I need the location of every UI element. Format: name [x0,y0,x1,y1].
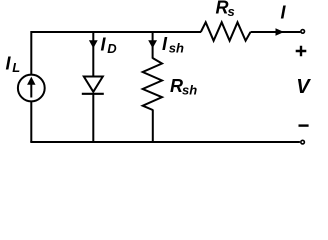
wire: shunt branch upper segment [152,31,154,59]
arrow ID (down) [89,40,98,48]
current source IL (circle) [18,75,45,102]
svg-text:L: L [12,60,20,75]
arrow Ish (down) [148,40,157,48]
svg-text:s: s [228,4,235,19]
wire: top rail from left corner to Rs [31,31,201,33]
wire: bottom rail [30,141,300,143]
diode cathode bar [82,93,104,95]
svg-text:V: V [296,76,311,98]
plus sign [296,46,307,57]
svg-text:sh: sh [182,82,197,97]
terminal: negative (open circle) [301,140,305,144]
wire: output wire from Rs to terminal [251,31,301,33]
wire: diode branch upper segment [92,31,94,77]
diode D (triangle) [84,77,103,92]
svg-text:D: D [107,41,117,56]
wire: diode branch lower segment [92,95,94,143]
terminal: positive (open circle) [301,30,305,34]
resistor Rs (horizontal zigzag) [201,22,251,40]
wire: shunt branch lower segment [152,110,154,143]
svg-text:sh: sh [169,40,184,55]
resistor Rsh (vertical zigzag) [143,58,162,110]
minus sign [299,124,309,126]
wire: lower left vertical (current source to bottom rail) [30,101,32,142]
wire: upper left vertical (top rail down to current source) [30,31,32,75]
current source arrow (up) [30,84,32,98]
arrow I (right) [276,28,285,35]
